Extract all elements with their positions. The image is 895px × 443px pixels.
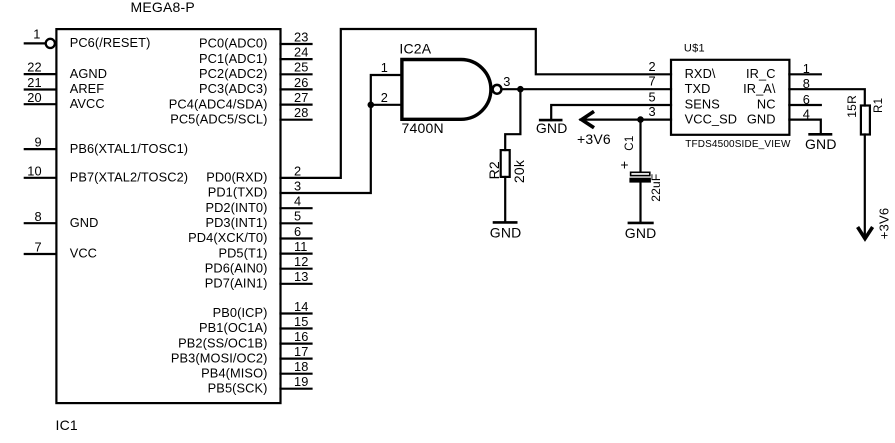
svg-text:PB5(SCK): PB5(SCK) (208, 380, 268, 395)
pin 28 (right) of IC1 (281, 119, 312, 121)
svg-text:IR_C: IR_C (746, 66, 776, 81)
svg-text:PB1(OC1A): PB1(OC1A) (199, 320, 267, 335)
pin 23 (right) of IC1 (281, 43, 312, 45)
svg-text:AREF: AREF (70, 81, 105, 96)
svg-text:7: 7 (34, 240, 41, 255)
svg-text:16: 16 (294, 329, 308, 344)
wire R2 bottom to ground (504, 177, 506, 222)
svg-text:3: 3 (648, 104, 655, 119)
svg-text:+: + (620, 156, 628, 172)
junction node at VCC_SD / C1 (637, 116, 644, 123)
svg-text:24: 24 (294, 45, 308, 60)
svg-text:PD7(AIN1): PD7(AIN1) (205, 276, 268, 291)
svg-text:PC6(/RESET): PC6(/RESET) (70, 35, 151, 50)
svg-text:VCC_SD: VCC_SD (685, 111, 738, 126)
svg-text:20k: 20k (511, 159, 527, 183)
wire U$1 pin 4 GND to ground (789, 120, 820, 135)
svg-text:2: 2 (381, 90, 388, 105)
svg-text:25: 25 (294, 60, 308, 75)
pin 5 (right) of IC1 (281, 222, 312, 224)
pin 13 (right) of IC1 (281, 283, 312, 285)
pin 6 (right) of IC1 (281, 237, 312, 239)
svg-text:7: 7 (648, 74, 655, 89)
wire U$1 pin 1 IR_C stub (789, 73, 820, 75)
svg-text:GND: GND (805, 136, 837, 152)
ground bar under U$1 pin 4 (808, 133, 832, 136)
+3V6 arrow head (pointing left) at VCC_SD (582, 111, 594, 127)
svg-text:2: 2 (648, 59, 655, 74)
ground bar under R2 (493, 221, 518, 224)
svg-text:PB4(MISO): PB4(MISO) (201, 365, 267, 380)
pin 8 (left) of IC1 (25, 222, 57, 224)
svg-text:PB0(ICP): PB0(ICP) (213, 305, 268, 320)
svg-text:8: 8 (803, 76, 810, 91)
svg-text:14: 14 (294, 299, 308, 314)
svg-text:22: 22 (27, 60, 41, 75)
svg-text:PC4(ADC4/SDA): PC4(ADC4/SDA) (169, 96, 268, 111)
svg-text:R1: R1 (873, 98, 885, 113)
IR transceiver U$1 body (671, 60, 789, 135)
svg-text:9: 9 (34, 135, 41, 150)
svg-text:18: 18 (294, 359, 308, 374)
wire VCC_SD +3V6 net (580, 118, 671, 120)
pin 9 (left) of IC1 (25, 148, 57, 150)
wire U$1 pin 6 NC stub (789, 104, 820, 106)
svg-text:PC2(ADC2): PC2(ADC2) (199, 66, 267, 81)
microcontroller IC1 MEGA8-P body (56, 29, 280, 403)
svg-text:PD4(XCK/T0): PD4(XCK/T0) (188, 230, 267, 245)
svg-text:PC5(ADC5/SCL): PC5(ADC5/SCL) (170, 111, 267, 126)
wire from NAND output junction down to R2 (505, 89, 520, 150)
capacitor C1 bottom plate (629, 178, 651, 183)
pin 10 (left) of IC1 (25, 177, 57, 179)
pin 21 (left) of IC1 (25, 88, 57, 90)
svg-text:AGND: AGND (70, 66, 107, 81)
wire NAND input 2 stub (371, 104, 402, 106)
svg-text:PD1(TXD): PD1(TXD) (208, 185, 268, 200)
svg-text:+3V6: +3V6 (577, 131, 611, 147)
pin 7 (left) of IC1 (25, 253, 57, 255)
svg-text:GND: GND (625, 225, 657, 241)
svg-text:RXD\: RXD\ (685, 66, 716, 81)
svg-text:21: 21 (27, 75, 41, 90)
pin 24 (right) of IC1 (281, 58, 312, 60)
svg-text:GND: GND (70, 215, 99, 230)
wire net PD0(RXD) from IC1 pin 2 to U$1 RXD pin 2 (281, 29, 672, 178)
ground bar under SENS (539, 119, 563, 122)
NAND gate IC2A body (402, 60, 491, 120)
svg-text:27: 27 (294, 90, 308, 105)
svg-text:IR_A\: IR_A\ (743, 81, 776, 96)
svg-text:MEGA8-P: MEGA8-P (131, 0, 195, 15)
svg-text:GND: GND (536, 120, 568, 136)
svg-text:GND: GND (747, 111, 776, 126)
svg-text:23: 23 (294, 29, 308, 44)
svg-text:PD0(RXD): PD0(RXD) (206, 170, 267, 185)
capacitor C1 top plate (631, 172, 650, 175)
pin 19 (right) of IC1 (281, 388, 312, 390)
pin 4 (right) of IC1 (281, 207, 312, 209)
svg-text:6: 6 (294, 224, 301, 239)
svg-text:7400N: 7400N (402, 120, 444, 136)
pin 11 (right) of IC1 (281, 253, 312, 255)
svg-text:IC2A: IC2A (399, 41, 431, 57)
svg-text:PB3(MOSI/OC2): PB3(MOSI/OC2) (171, 350, 268, 365)
svg-text:26: 26 (294, 75, 308, 90)
svg-text:PD6(AIN0): PD6(AIN0) (205, 260, 268, 275)
svg-text:15R: 15R (845, 95, 859, 118)
pin 17 (right) of IC1 (281, 358, 312, 360)
svg-text:+3V6: +3V6 (877, 208, 892, 240)
pin 1 inversion bubble (46, 39, 55, 48)
junction node at NAND input 2 (368, 102, 375, 109)
svg-text:10: 10 (27, 163, 41, 178)
pin 12 (right) of IC1 (281, 268, 312, 270)
svg-text:TXD: TXD (685, 81, 711, 96)
svg-text:2: 2 (294, 163, 301, 178)
svg-text:PC1(ADC1): PC1(ADC1) (199, 51, 267, 66)
svg-text:6: 6 (803, 92, 810, 107)
svg-text:C1: C1 (624, 135, 636, 150)
svg-text:3: 3 (503, 74, 510, 89)
svg-text:PD5(T1): PD5(T1) (218, 245, 267, 260)
svg-text:5: 5 (294, 209, 301, 224)
svg-text:PD2(INT0): PD2(INT0) (205, 200, 267, 215)
pin 15 (right) of IC1 (281, 327, 312, 329)
svg-text:PB6(XTAL1/TOSC1): PB6(XTAL1/TOSC1) (70, 141, 188, 156)
svg-text:PC0(ADC0): PC0(ADC0) (199, 36, 267, 51)
junction node at NAND output / R2 (517, 86, 524, 93)
svg-text:11: 11 (294, 239, 307, 254)
wire NAND output to U$1 TXD pin 7 (503, 88, 671, 90)
svg-text:4: 4 (294, 194, 301, 209)
svg-text:12: 12 (294, 254, 308, 269)
svg-text:PD3(INT1): PD3(INT1) (205, 215, 267, 230)
svg-text:TFDS4500SIDE_VIEW: TFDS4500SIDE_VIEW (685, 139, 791, 150)
svg-text:IC1: IC1 (56, 417, 78, 433)
svg-text:1: 1 (803, 61, 810, 76)
svg-text:3: 3 (294, 178, 301, 193)
svg-text:VCC: VCC (70, 246, 97, 261)
wire U$1 pin 8 IR_A to R1 (789, 89, 864, 105)
svg-text:U$1: U$1 (684, 42, 705, 54)
pin 26 (right) of IC1 (281, 88, 312, 90)
svg-text:1: 1 (33, 27, 40, 42)
wire C1 bottom to ground (639, 183, 641, 223)
pin 16 (right) of IC1 (281, 343, 312, 345)
svg-text:PB7(XTAL2/TOSC2): PB7(XTAL2/TOSC2) (70, 170, 188, 185)
svg-text:20: 20 (27, 90, 41, 105)
pin 14 (right) of IC1 (281, 312, 312, 314)
pin 20 (left) of IC1 (25, 103, 57, 105)
NAND output inversion bubble (493, 85, 502, 94)
resistor R1 body (861, 106, 870, 135)
pin 18 (right) of IC1 (281, 373, 312, 375)
svg-text:NC: NC (757, 97, 776, 112)
svg-text:4: 4 (803, 106, 810, 121)
wire SENS net to ground (551, 105, 671, 120)
svg-text:22uF: 22uF (649, 174, 663, 202)
pin 1 (left) of IC1 (25, 42, 45, 44)
pin 25 (right) of IC1 (281, 73, 312, 75)
svg-text:28: 28 (294, 105, 308, 120)
svg-text:5: 5 (648, 90, 655, 105)
svg-text:15: 15 (294, 314, 308, 329)
wire net PD1(TXD) from IC1 pin 3 to NAND input 1 (281, 75, 402, 193)
resistor R2 body (501, 150, 510, 177)
svg-text:R2: R2 (486, 161, 502, 179)
svg-text:17: 17 (294, 344, 308, 359)
pin 22 (left) of IC1 (25, 73, 57, 75)
+3V6 arrow head (pointing down) below R1 (858, 227, 873, 239)
ground bar under C1 (628, 222, 654, 225)
svg-text:GND: GND (490, 225, 522, 241)
svg-text:SENS: SENS (685, 97, 720, 112)
svg-text:AVCC: AVCC (70, 96, 105, 111)
svg-text:19: 19 (294, 374, 308, 389)
svg-text:PB2(SS/OC1B): PB2(SS/OC1B) (178, 335, 267, 350)
svg-text:13: 13 (294, 269, 308, 284)
svg-text:8: 8 (34, 209, 41, 224)
svg-text:PC3(ADC3): PC3(ADC3) (199, 81, 267, 96)
wire C1 top connection (639, 120, 641, 172)
pin 27 (right) of IC1 (281, 103, 312, 105)
svg-text:1: 1 (381, 60, 388, 75)
wire R1 bottom to +3V6 arrow (864, 135, 866, 237)
